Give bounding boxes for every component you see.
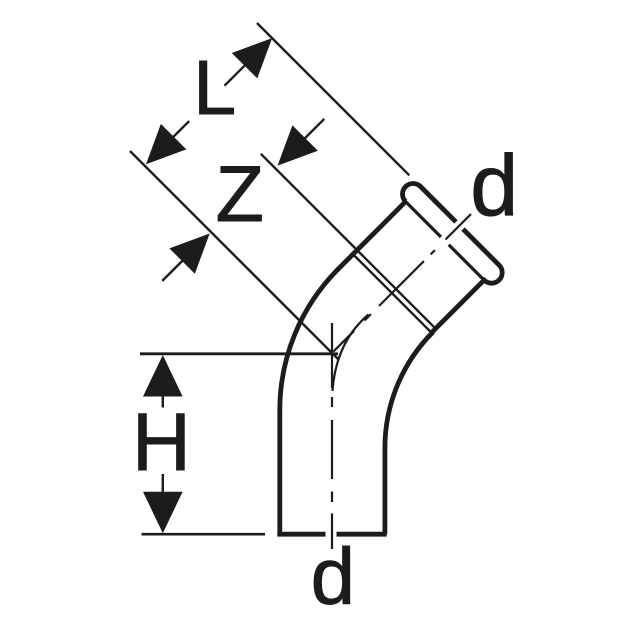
pipe bottom end edge (left segment) <box>277 532 325 537</box>
H dimension down arrow <box>143 474 183 533</box>
extension line 3 (socket stop plane, continues as shoulder line) <box>261 154 436 329</box>
H dimension up arrow <box>143 355 183 408</box>
Z dimension left arrow <box>150 221 223 294</box>
svg-text:d: d <box>311 532 355 621</box>
H bottom reference line <box>142 533 266 536</box>
thin bend-radius fillet arc at center <box>333 315 369 392</box>
outer (left) wall of bend <box>280 269 339 534</box>
L dimension lower arrow <box>133 108 202 177</box>
extension line 1 (socket mouth plane) <box>257 23 409 175</box>
svg-text:d: d <box>470 138 518 234</box>
svg-text:L: L <box>193 45 236 131</box>
inner (right) wall of bend <box>385 332 433 534</box>
L dimension upper arrow <box>212 25 285 98</box>
socket mouth bead with end caps and lower wall <box>345 179 507 341</box>
dash-dot axis of socket <box>333 214 471 352</box>
rotated frame: +X runs up-right along socket axis, centered on bend center <box>81 11 518 448</box>
socket mouth inner edge <box>406 202 484 280</box>
pipe bottom end edge (right segment) <box>337 532 387 537</box>
svg-text:Z: Z <box>216 149 264 238</box>
H top reference line <box>140 352 338 355</box>
socket upper wall <box>337 202 406 271</box>
second shoulder line inside socket <box>353 254 431 332</box>
extension line 2 (center plane) <box>130 151 339 360</box>
Z dimension right arrow <box>265 106 337 178</box>
vertical dash-dot centerline of lower pipe <box>331 323 333 549</box>
svg-text:H: H <box>132 397 191 488</box>
